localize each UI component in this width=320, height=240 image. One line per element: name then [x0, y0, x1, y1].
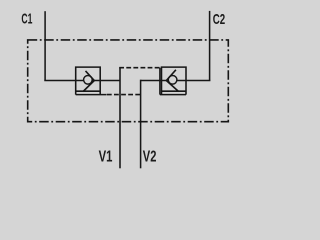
- wire: C1 to left valve: [44, 80, 75, 82]
- seat vertex wedge (left valve): [92, 78, 95, 82]
- svg-text:C2: C2: [213, 12, 225, 28]
- pilot line from V2 (dashed, to left valve): [107, 94, 141, 96]
- svg-text:V1: V1: [99, 148, 113, 165]
- wire: C2 drop: [209, 11, 211, 81]
- pilot drop: [159, 68, 161, 95]
- seat V upper arm (right valve): [166, 70, 176, 81]
- check valve box V2 (right): [162, 67, 187, 95]
- pilot under right valve: [160, 94, 186, 96]
- wire: V1 riser: [119, 68, 121, 169]
- wire: line through left valve: [76, 80, 101, 82]
- wire: V2 to right valve: [141, 80, 162, 82]
- wire: V2 riser: [140, 80, 142, 169]
- svg-text:V2: V2: [143, 148, 157, 165]
- seat V lower arm (right valve): [166, 81, 178, 92]
- wire: left valve to V1 node: [100, 80, 120, 82]
- seat V upper arm (left valve): [86, 71, 95, 81]
- wire: right valve to C2: [186, 80, 210, 82]
- enclosure (valve body, dash-dot): [28, 40, 229, 122]
- seat vertex wedge (right valve): [166, 78, 169, 82]
- ball circle (right valve): [168, 76, 177, 85]
- svg-text:C1: C1: [21, 12, 32, 28]
- seat V lower arm (left valve): [83, 81, 94, 92]
- wire: line through right valve: [162, 80, 187, 82]
- pilot line from V1 (dashed, to right valve): [119, 67, 160, 69]
- pilot line from V2 (solid under left valve): [76, 94, 107, 96]
- wire: C1 drop: [44, 11, 46, 80]
- check valve box V1 (left): [76, 67, 101, 95]
- ball circle (left valve): [84, 76, 93, 85]
